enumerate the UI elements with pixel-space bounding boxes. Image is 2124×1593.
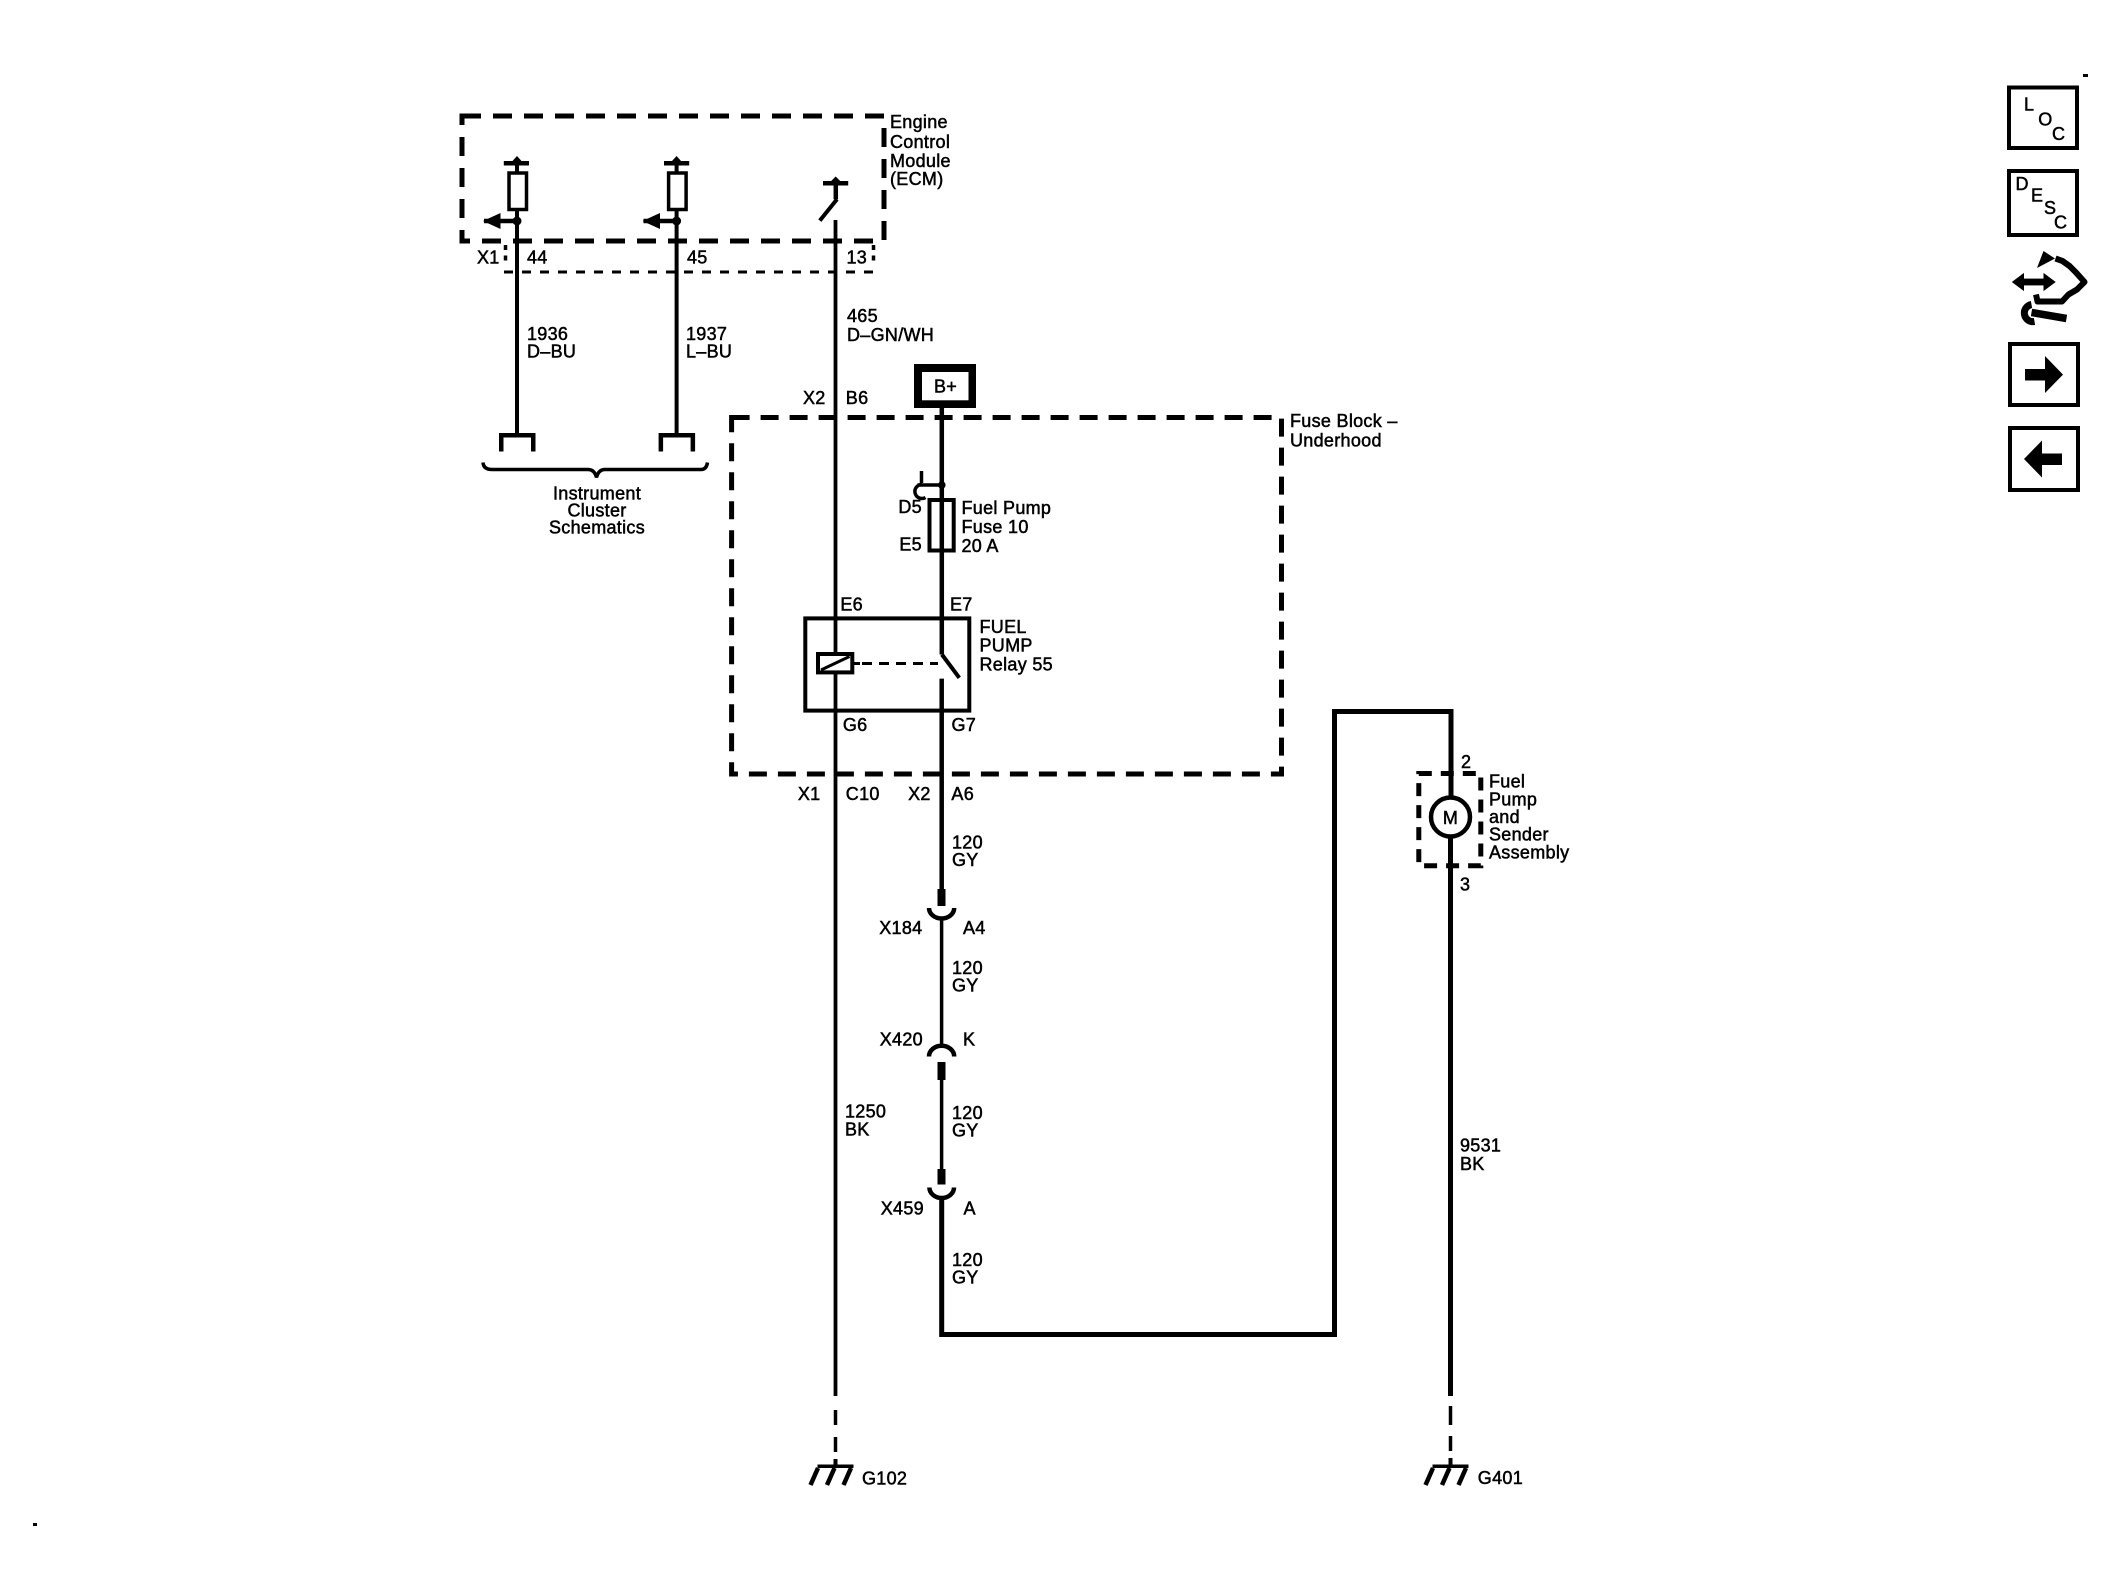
fuse block underhood box (dashed) [732, 418, 1282, 775]
resistor (ECM driver, pin 44) [504, 156, 529, 210]
wire 1936 (pin 44 vertical) [515, 165, 519, 433]
svg-text:BK: BK [845, 1120, 870, 1140]
relay pin labels G6/G7 [843, 715, 976, 735]
connector label X420 / K [880, 1030, 976, 1050]
instrument cluster label [549, 484, 645, 538]
svg-text:Schematics: Schematics [549, 518, 645, 538]
svg-text:G6: G6 [843, 715, 868, 735]
fuse label [962, 498, 1052, 556]
svg-text:D: D [2016, 174, 2029, 194]
nav icon LOC [2009, 88, 2077, 149]
ground G401 [1426, 1465, 1524, 1489]
svg-text:D–BU: D–BU [527, 342, 576, 362]
wire label 120 GY (1) [952, 833, 983, 871]
arrow out (pin 44) [483, 213, 522, 229]
stray mark bottom left [33, 1523, 37, 1526]
inline connector X420 pin K [929, 1046, 954, 1080]
arrow out (pin 45) [643, 213, 682, 229]
svg-text:1250: 1250 [845, 1102, 886, 1122]
svg-text:44: 44 [527, 248, 548, 268]
switch (ECM fuel pump relay driver, pin 13) [820, 177, 848, 221]
svg-text:X420: X420 [880, 1030, 923, 1050]
wire label 120 GY (3) [952, 1103, 983, 1141]
fuel pump assembly box (dashed) [1419, 774, 1481, 866]
svg-text:L: L [2024, 95, 2034, 115]
nav icon next (right arrow) [2010, 344, 2078, 405]
svg-text:GY: GY [952, 976, 979, 996]
svg-text:GY: GY [952, 850, 979, 870]
svg-text:Fuse Block –: Fuse Block – [1290, 411, 1398, 431]
svg-text:G401: G401 [1478, 1468, 1523, 1488]
ground G102 [811, 1465, 908, 1489]
svg-text:20 A: 20 A [962, 536, 999, 556]
svg-text:D5: D5 [898, 497, 922, 517]
dashed wire to G401 [1449, 1406, 1453, 1465]
wire 1937 (pin 45 vertical) [675, 165, 679, 433]
stray mark top right [2083, 74, 2088, 77]
svg-text:L–BU: L–BU [686, 342, 732, 362]
svg-text:(ECM): (ECM) [890, 169, 944, 189]
wire between X420 and X459 [940, 1080, 944, 1169]
svg-text:X184: X184 [879, 918, 922, 938]
svg-text:13: 13 [847, 248, 868, 268]
wire label 1936 D-BU [527, 324, 576, 362]
relay coil [818, 654, 852, 672]
svg-text:Relay 55: Relay 55 [980, 655, 1053, 675]
wire X459 to fuel pump (L-path) [942, 712, 1451, 1335]
relay pin labels E6/E7 [840, 595, 972, 615]
terminal (instrument cluster, wire 1936) [499, 433, 536, 452]
svg-text:M: M [1443, 808, 1458, 828]
svg-text:A6: A6 [951, 784, 974, 804]
svg-text:X1: X1 [477, 248, 500, 268]
svg-text:X459: X459 [881, 1199, 924, 1219]
fuse block bus hook (D5) [915, 471, 946, 498]
svg-text:B6: B6 [846, 388, 869, 408]
svg-text:E: E [2031, 186, 2043, 206]
wire label 9531 BK [1460, 1136, 1501, 1175]
inline connector X184 pin A4 [929, 889, 954, 919]
wire label 1250 BK [845, 1102, 886, 1140]
nav icon back (left arrow) [2010, 428, 2078, 490]
svg-text:X2: X2 [908, 784, 931, 804]
wire 465 D-GN/WH (pin 13 down to G102) [834, 220, 838, 1396]
svg-text:9531: 9531 [1460, 1136, 1501, 1156]
motor M (fuel pump) [1431, 798, 1470, 837]
relay label [980, 617, 1053, 675]
inline connector X459 pin A [929, 1169, 954, 1198]
wire B+ to fuse [940, 408, 945, 655]
svg-text:Underhood: Underhood [1290, 431, 1382, 451]
svg-text:PUMP: PUMP [980, 636, 1033, 656]
svg-text:45: 45 [687, 248, 708, 268]
wire label 120 GY (4) [952, 1250, 983, 1288]
wire label 1937 L-BU [686, 324, 732, 362]
svg-text:GY: GY [952, 1268, 979, 1288]
svg-text:X1: X1 [798, 784, 821, 804]
nav icon wiring repair (arrows + wrench) [2012, 251, 2085, 322]
resistor (ECM driver, pin 45) [664, 156, 689, 210]
fuel pump assembly label [1489, 772, 1569, 863]
svg-text:GY: GY [952, 1121, 979, 1141]
ECM module box (dashed) [462, 116, 884, 241]
svg-text:E7: E7 [950, 595, 973, 615]
relay K55 box (FUEL PUMP Relay 55) [805, 618, 969, 710]
svg-text:2: 2 [1461, 752, 1471, 772]
svg-text:3: 3 [1460, 875, 1470, 895]
node X2/B6 labels (ECM harness to fuse block) [803, 388, 868, 408]
svg-text:Engine: Engine [890, 112, 948, 132]
svg-text:Control: Control [890, 132, 950, 152]
svg-text:Module: Module [890, 151, 951, 171]
svg-text:K: K [963, 1030, 975, 1050]
svg-text:C10: C10 [846, 784, 880, 804]
fuse block label [1290, 411, 1398, 451]
svg-text:A4: A4 [963, 918, 986, 938]
connector label X184 / A4 [879, 918, 985, 938]
svg-text:C: C [2054, 213, 2067, 233]
B+ battery feed [914, 364, 976, 408]
svg-text:465: 465 [847, 306, 878, 326]
terminal (instrument cluster, wire 1937) [659, 433, 696, 452]
svg-text:E5: E5 [899, 535, 922, 555]
svg-text:FUEL: FUEL [980, 617, 1027, 637]
wire label 465 D-GN/WH [847, 306, 934, 345]
fuse block bottom pin labels X1 C10 / X2 A6 [798, 784, 974, 804]
svg-text:Fuel: Fuel [1489, 772, 1525, 792]
svg-text:Sender: Sender [1489, 825, 1549, 845]
wire relay G7 down (120 GY) [939, 679, 944, 890]
wire label 120 GY (2) [952, 958, 983, 996]
svg-text:C: C [2052, 124, 2065, 144]
wire 9531 BK (pump to G401) [1448, 837, 1453, 1397]
fuse F10 (Fuel Pump Fuse 10 20A) [930, 500, 954, 551]
svg-text:E6: E6 [840, 595, 863, 615]
svg-text:A: A [964, 1199, 976, 1219]
fuse pin labels D5/E5 [898, 497, 922, 555]
svg-text:G7: G7 [952, 715, 977, 735]
svg-text:BK: BK [1460, 1154, 1485, 1174]
svg-text:O: O [2038, 110, 2052, 130]
relay switch blade [942, 655, 959, 678]
svg-text:X2: X2 [803, 388, 826, 408]
svg-text:Fuse 10: Fuse 10 [962, 517, 1029, 537]
svg-text:Fuel Pump: Fuel Pump [962, 498, 1052, 518]
dashed wire to G102 [834, 1410, 838, 1466]
svg-text:Assembly: Assembly [1489, 843, 1569, 863]
relay actuating link (dashed) [852, 662, 938, 665]
connector label X459 / A [881, 1199, 976, 1219]
ECM label [890, 112, 951, 189]
nav icon DESC [2009, 171, 2077, 235]
wire between X184 and X420 [940, 917, 944, 1047]
svg-text:D–GN/WH: D–GN/WH [847, 325, 934, 345]
ECM connector pin row [477, 245, 874, 272]
svg-text:G102: G102 [862, 1469, 907, 1489]
brace (instrument cluster) [483, 463, 708, 478]
svg-text:B+: B+ [934, 377, 957, 397]
